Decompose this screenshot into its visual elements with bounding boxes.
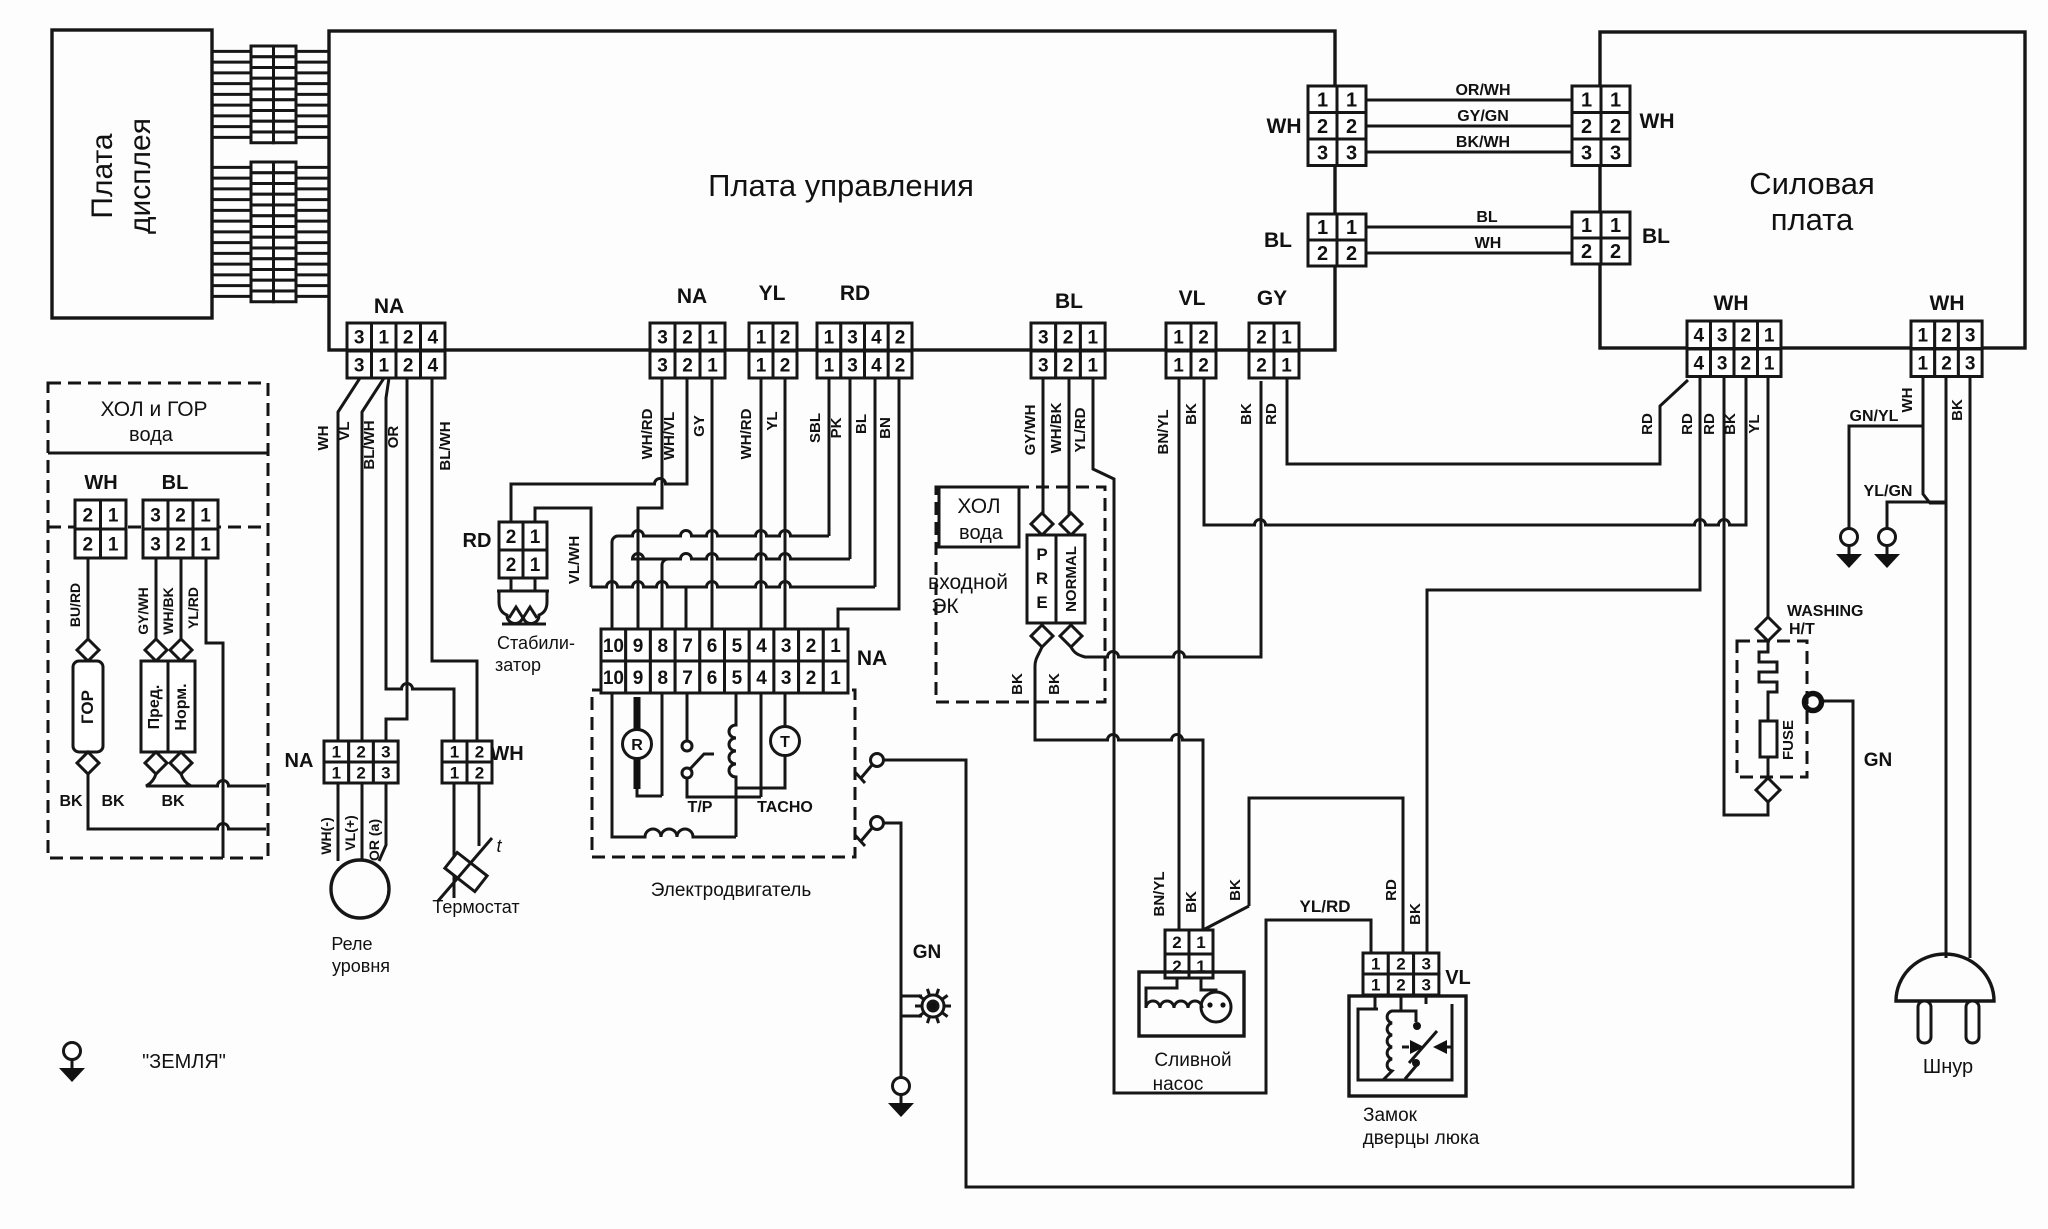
BK return line P [146,774,266,786]
svg-text:1: 1 [830,636,841,657]
svg-text:BK: BK [1009,673,1026,695]
svg-text:3: 3 [1421,976,1430,995]
svg-text:2: 2 [475,743,484,762]
connector NA (3 2 1) [650,323,725,378]
svg-text:5: 5 [732,636,743,657]
svg-text:1: 1 [200,505,211,526]
svg-text:1: 1 [1371,955,1380,974]
wire YL/RD [206,558,223,858]
svg-text:VL: VL [1445,967,1471,989]
svg-text:2: 2 [475,764,484,783]
svg-text:4: 4 [428,355,439,376]
svg-text:WH/VL: WH/VL [661,412,678,460]
svg-text:BK: BK [1949,399,1966,421]
svg-text:YL: YL [764,411,781,430]
svg-text:2: 2 [175,505,186,526]
wire GY/WH [1042,378,1045,514]
svg-text:4: 4 [756,636,767,657]
svg-text:3: 3 [1965,326,1976,347]
svg-text:BN/YL: BN/YL [1155,410,1172,455]
svg-text:1: 1 [1918,354,1929,375]
svg-text:1: 1 [756,355,767,376]
svg-text:3: 3 [781,668,792,689]
motor main winding pin10 [612,693,736,837]
svg-text:WH: WH [1475,235,1502,252]
wire GY/GN [1366,125,1572,128]
svg-text:3: 3 [1717,354,1728,375]
svg-text:BK: BK [1183,891,1200,913]
svg-text:3: 3 [1610,142,1621,164]
GOR valve [77,639,99,661]
svg-text:WH: WH [1640,110,1675,133]
svg-text:RD: RD [840,282,870,305]
wire YL/GN to ground [1887,502,1946,528]
svg-text:1: 1 [824,327,835,348]
svg-text:BL/WH: BL/WH [437,421,454,470]
svg-text:2: 2 [403,355,414,376]
svg-text:насос: насос [1153,1074,1204,1095]
connector WH control side [1308,86,1366,166]
wire BK from PRE to drain pump pin1 [1035,647,1249,930]
svg-text:WH(-): WH(-) [318,817,334,854]
connector BL power side [1572,212,1630,264]
svg-text:Силовая: Силовая [1749,166,1875,201]
svg-text:2: 2 [1941,354,1952,375]
wire WH/RD YL pin1 to motor pin4 [760,378,763,629]
PRE valve [1031,513,1053,535]
svg-text:WH/RD: WH/RD [639,408,656,459]
wire BL RD pin4 [874,378,877,587]
svg-text:WH: WH [1714,292,1749,315]
svg-text:Плата управления: Плата управления [708,168,974,203]
svg-text:2: 2 [1396,955,1405,974]
svg-text:BK: BK [101,793,125,810]
svg-text:входной: входной [928,571,1008,594]
NORM valve [170,639,192,661]
wire WH (board link) [1365,252,1572,255]
svg-text:2: 2 [1198,327,1209,348]
svg-text:BL: BL [853,414,870,434]
svg-text:2: 2 [895,355,906,376]
svg-text:3: 3 [1965,354,1976,375]
motor spade terminal upper [871,754,884,767]
power plug (Шнур) [1896,954,1994,1001]
svg-text:3: 3 [1421,955,1430,974]
svg-text:1: 1 [1281,355,1292,376]
connector VL (1 2) [1166,323,1216,378]
wire BU/RD [87,558,90,639]
wire GN/YL to ground [1849,426,1923,528]
svg-text:BN/YL: BN/YL [1151,872,1168,917]
svg-text:3: 3 [1346,142,1357,164]
lock coil [1383,995,1401,1080]
wire cord WH [1945,378,1948,958]
svg-text:Термостат: Термостат [432,897,519,917]
NORMAL valve [1060,513,1082,535]
svg-text:NORMAL: NORMAL [1063,546,1080,612]
svg-text:2: 2 [506,527,517,548]
svg-text:дверцы люка: дверцы люка [1363,1128,1480,1149]
svg-text:R: R [631,737,643,754]
wire BK from NORMAL and GY pin2 [1071,381,1261,657]
svg-text:1: 1 [1317,90,1328,112]
thermostat wires [454,783,479,898]
svg-text:Реле: Реле [331,934,372,954]
svg-text:3: 3 [1317,142,1328,164]
svg-text:2: 2 [506,555,517,576]
wire RD pin4 to door lock pin3 [1427,378,1700,953]
connector GY (2 1) [1249,323,1299,378]
connector NA (3 1 2 4) [347,323,445,378]
svg-text:2: 2 [1063,355,1074,376]
svg-text:YL/RD: YL/RD [1300,897,1351,916]
svg-text:2: 2 [1317,116,1328,138]
svg-text:1: 1 [1346,217,1357,239]
svg-text:2: 2 [83,534,94,555]
wire WH from NA pin3 [338,378,360,741]
svg-text:BK/WH: BK/WH [1456,134,1510,151]
svg-text:Сливной: Сливной [1154,1050,1231,1071]
svg-text:RD: RD [1679,413,1696,435]
svg-text:GY/WH: GY/WH [135,587,151,634]
svg-text:1: 1 [1173,327,1184,348]
svg-text:RD: RD [1263,403,1280,425]
ribbon connector block lower [251,162,296,302]
drain pump BK wire from valves junction [1249,798,1403,955]
connector WH (1 2 3) [1911,321,1982,377]
svg-text:1: 1 [530,555,541,576]
inner dashed line [48,526,268,529]
svg-text:7: 7 [682,636,693,657]
svg-text:2: 2 [1063,327,1074,348]
wire OR/WH [1366,99,1572,102]
svg-text:2: 2 [682,327,693,348]
svg-text:6: 6 [707,668,718,689]
svg-text:BN: BN [877,417,894,439]
input valve dashed box [936,487,1105,702]
connector VL (1 2 3) door lock [1363,953,1439,995]
connector WH power side [1572,86,1630,166]
svg-text:BL: BL [162,472,189,494]
tacho generator [771,727,800,756]
svg-text:1: 1 [1088,327,1099,348]
svg-text:OR: OR [385,426,402,449]
svg-text:1: 1 [379,327,390,348]
svg-text:TACHO: TACHO [757,799,813,816]
svg-text:YL/GN: YL/GN [1864,483,1913,500]
cold water box [939,487,1019,547]
wire RD GY pin1 to power WH pin4 [1287,378,1688,464]
thermostat body [438,836,502,901]
svg-text:RD: RD [1701,413,1718,435]
wire GY/WH [155,558,158,639]
svg-text:2: 2 [1346,116,1357,138]
svg-text:уровня: уровня [332,956,390,976]
svg-text:Пред.: Пред. [146,685,163,730]
chassis gear symbol [915,989,951,1023]
level relay body [331,860,389,918]
connector NA (10..1) motor [601,629,848,693]
svg-text:OR/WH: OR/WH [1455,82,1510,99]
svg-text:1: 1 [530,527,541,548]
svg-text:3: 3 [354,327,365,348]
svg-text:4: 4 [756,668,767,689]
svg-text:1: 1 [1281,327,1292,348]
wire cord BK [1969,378,1972,958]
svg-text:3: 3 [150,505,161,526]
svg-text:2: 2 [1581,241,1592,263]
wire RD stabilizer pin2 to WH/VL [511,378,687,522]
svg-text:P: P [1036,545,1047,564]
branch to motor pin7 [685,587,688,629]
connector drain pump (2 1) [1165,930,1213,978]
svg-text:BK: BK [1183,403,1200,425]
svg-text:2: 2 [1741,354,1752,375]
svg-text:ЭК: ЭК [931,595,959,618]
svg-text:3: 3 [657,355,668,376]
wire BK/WH [1366,151,1572,154]
svg-text:WH: WH [315,426,332,451]
svg-text:2: 2 [1317,243,1328,265]
svg-text:1: 1 [1196,933,1205,952]
svg-text:2: 2 [1198,355,1209,376]
svg-text:1: 1 [450,743,459,762]
svg-text:GY: GY [1257,287,1287,310]
svg-text:YL/RD: YL/RD [185,587,201,629]
svg-text:2: 2 [175,534,186,555]
wire BL/WH to thermostat pin1 [386,378,454,741]
washing H/T diamond [1756,617,1780,641]
svg-text:Замок: Замок [1363,1105,1418,1126]
svg-text:1: 1 [1581,90,1592,112]
svg-text:YL: YL [1746,414,1763,433]
svg-text:WH: WH [1930,292,1965,315]
svg-text:BK: BK [1046,673,1063,695]
svg-text:PK: PK [828,417,845,438]
connector BL (3 2 1) [1031,323,1105,378]
wire VL(+) [361,783,364,860]
svg-text:2: 2 [83,505,94,526]
svg-text:1: 1 [707,355,718,376]
svg-text:1: 1 [1610,90,1621,112]
svg-text:вода: вода [129,424,174,446]
svg-text:WH/BK: WH/BK [160,587,176,634]
svg-text:1: 1 [108,505,119,526]
connector BL control side [1308,214,1366,266]
svg-text:RD: RD [1639,413,1656,435]
svg-text:3: 3 [781,636,792,657]
svg-text:WH/RD: WH/RD [738,408,755,459]
control board box [329,31,1335,350]
wire VL from NA pin1 [362,378,384,741]
svg-text:BU/RD: BU/RD [67,583,83,627]
svg-text:GY/WH: GY/WH [1022,405,1039,456]
inner line [48,452,268,455]
svg-text:9: 9 [633,668,644,689]
BK return line Q [88,774,266,829]
svg-text:3: 3 [381,764,390,783]
svg-text:1: 1 [1581,215,1592,237]
svg-text:GY/GN: GY/GN [1457,108,1509,125]
svg-text:2: 2 [1256,327,1267,348]
svg-text:VL: VL [336,421,353,440]
svg-text:2: 2 [682,355,693,376]
PRED valve [145,639,167,661]
display board box [52,30,212,318]
connector RD (1 3 4 2) [817,323,912,378]
door lock box [1349,996,1466,1096]
ribbon wires display to control board [212,51,329,296]
svg-text:BK: BK [1238,403,1255,425]
hot/cold water dashed box [48,383,268,858]
fuse [1760,721,1777,757]
motor dashed box [592,690,855,857]
wire WH/BK [1068,378,1071,514]
svg-text:1: 1 [200,534,211,555]
svg-text:BL: BL [1055,290,1083,313]
svg-text:H/T: H/T [1789,621,1815,638]
svg-text:BK: BK [1227,879,1244,901]
svg-text:1: 1 [1764,354,1775,375]
svg-text:GN: GN [1864,750,1893,771]
svg-text:2: 2 [1346,243,1357,265]
svg-text:2: 2 [1610,116,1621,138]
svg-text:плата: плата [1771,202,1854,237]
svg-text:NA: NA [677,285,707,308]
svg-text:WASHING: WASHING [1787,603,1863,620]
svg-text:BL/WH: BL/WH [361,420,378,469]
svg-text:FUSE: FUSE [1780,720,1797,760]
svg-text:2: 2 [356,764,365,783]
connector NA (1 2 3) level relay [324,741,398,783]
drain pump box [1139,972,1244,1036]
heater element [1759,641,1777,721]
connector WH (4 3 2 1) [1687,321,1781,377]
wire YL/RD to door lock pin1 [1093,378,1371,1093]
svg-text:RD: RD [463,530,492,552]
svg-text:NA: NA [374,295,404,318]
svg-text:NA: NA [285,750,314,772]
svg-text:BK: BK [161,793,185,810]
svg-text:2: 2 [1581,116,1592,138]
svg-text:8: 8 [658,636,669,657]
wire OR from NA pin2 [386,378,407,741]
svg-text:1: 1 [332,764,341,783]
wire lower spade to chassis ground [883,823,922,1077]
svg-text:1: 1 [756,327,767,348]
svg-text:2: 2 [1941,326,1952,347]
svg-text:1: 1 [707,327,718,348]
svg-text:1: 1 [1317,217,1328,239]
svg-text:VL/WH: VL/WH [566,536,583,584]
svg-text:VL(+): VL(+) [342,815,358,850]
svg-text:1: 1 [1088,355,1099,376]
svg-text:E: E [1036,593,1047,612]
lock contact [1401,995,1426,1022]
svg-text:3: 3 [354,355,365,376]
svg-text:Стабили-: Стабили- [497,633,575,653]
wire RD pin3 to fuse bottom [1724,378,1768,815]
wire OR(a) [379,783,386,861]
svg-text:10: 10 [603,636,624,657]
svg-text:T: T [780,734,790,751]
svg-text:3: 3 [150,534,161,555]
ribbon connector block upper [251,46,296,143]
svg-text:4: 4 [1694,354,1705,375]
GN terminal [1805,694,1822,711]
svg-text:1: 1 [332,743,341,762]
wire WH/BK [180,558,183,639]
wire WH pin1 [1923,378,1946,503]
svg-text:R: R [1036,569,1048,588]
svg-text:2: 2 [780,327,791,348]
svg-text:2: 2 [1396,976,1405,995]
svg-text:3: 3 [847,327,858,348]
svg-text:"ЗЕМЛЯ": "ЗЕМЛЯ" [142,1051,226,1073]
svg-text:3: 3 [1581,142,1592,164]
ground symbol below motor [893,1078,910,1095]
svg-text:BK: BK [1722,413,1739,435]
motor rotor bar R [634,697,641,789]
svg-text:2: 2 [780,355,791,376]
svg-text:BK: BK [59,793,83,810]
svg-text:T/P: T/P [688,799,713,816]
svg-text:GN/YL: GN/YL [1850,408,1899,425]
connector YL (1 2) [749,323,797,378]
svg-text:8: 8 [658,668,669,689]
bus line c: VL/WH and BL to motor pin7 [591,582,875,587]
lock inner frame [1358,1004,1452,1080]
svg-text:BL: BL [1476,209,1498,226]
svg-text:3: 3 [847,355,858,376]
svg-text:NA: NA [857,647,887,670]
pump coil and motor [1146,978,1216,1008]
svg-text:2: 2 [1741,326,1752,347]
wire SBL RD pin1 [828,378,831,536]
svg-text:1: 1 [1764,326,1775,347]
svg-text:YL: YL [759,282,786,305]
svg-text:Шнур: Шнур [1923,1056,1973,1078]
svg-text:Электродвигатель: Электродвигатель [651,880,812,901]
washing heater dashed box [1737,641,1807,777]
svg-text:RD: RD [1383,879,1400,901]
wire BN/YL VL pin1 to drain pump pin2 [1178,378,1181,930]
connector WH (2 1) water [75,500,126,558]
svg-text:VL: VL [1179,287,1206,310]
svg-text:4: 4 [871,327,882,348]
svg-text:1: 1 [379,355,390,376]
svg-text:ХОЛ: ХОЛ [957,495,1000,518]
wire YL YL pin2 to motor pin3 [784,378,787,629]
svg-text:3: 3 [1038,327,1049,348]
svg-text:2: 2 [403,327,414,348]
svg-text:1: 1 [830,668,841,689]
svg-text:WH: WH [490,743,523,765]
wire PK RD pin3 [849,378,852,559]
svg-text:1: 1 [824,355,835,376]
svg-text:3: 3 [657,327,668,348]
T/P protector switch [682,741,692,751]
motor field coil pin5 [729,693,736,837]
wire rotor to pin8 [637,693,662,796]
svg-text:2: 2 [1256,355,1267,376]
svg-text:YL/RD: YL/RD [1072,407,1089,452]
svg-text:2: 2 [895,327,906,348]
svg-text:3: 3 [381,743,390,762]
stabilizer body [511,578,535,591]
svg-text:Норм.: Норм. [173,683,190,730]
svg-text:5: 5 [732,668,743,689]
